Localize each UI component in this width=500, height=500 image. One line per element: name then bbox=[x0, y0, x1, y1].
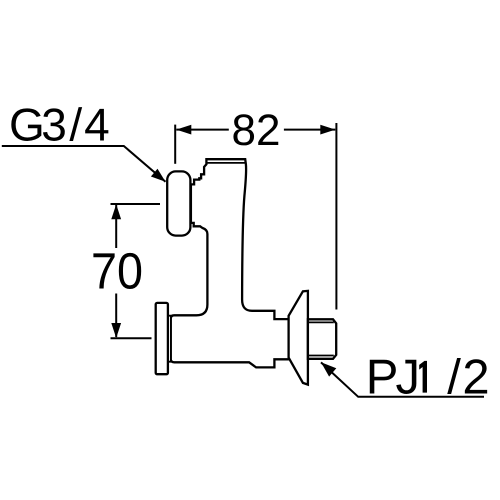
dim 70: bottom tick bbox=[111, 337, 152, 339]
label G3/4 leader line bbox=[2, 146, 166, 182]
dim 70: top tick bbox=[111, 203, 161, 205]
dim 70: line lower segment bbox=[115, 294, 117, 338]
dim 82: left arrowhead bbox=[176, 125, 191, 135]
dim 82: left extension line bbox=[174, 125, 176, 164]
label PJ1/2 digit one bbox=[419, 361, 427, 393]
dim 82: line right segment bbox=[284, 129, 335, 131]
svg-text:G3/4: G3/4 bbox=[9, 99, 110, 151]
svg-text:70: 70 bbox=[91, 243, 143, 300]
label PJ1/2 arrowhead bbox=[321, 362, 336, 376]
dim 82: right arrowhead bbox=[320, 125, 335, 135]
hub behind wall flange bbox=[168, 316, 171, 362]
label PJ1/2 leader line bbox=[321, 362, 484, 396]
label G3/4 arrowhead bbox=[151, 169, 166, 182]
dim 70: down arrowhead bbox=[111, 323, 121, 338]
escutcheon cone bbox=[289, 291, 308, 385]
svg-text:82: 82 bbox=[232, 106, 281, 155]
dim 70: up arrowhead bbox=[111, 204, 121, 219]
dim 82: right extension line bbox=[335, 123, 337, 310]
PJ1/2 threaded nipple bbox=[308, 319, 336, 359]
dim 70: line upper segment bbox=[115, 205, 117, 248]
thread line top bbox=[308, 321, 334, 323]
cap inner line bbox=[207, 162, 245, 164]
dim 82: line left segment bbox=[176, 129, 229, 131]
valve body outline bbox=[171, 159, 290, 367]
G3/4 cylinder bbox=[167, 171, 190, 235]
thread line bottom bbox=[308, 355, 334, 357]
wall flange plate bbox=[156, 303, 168, 374]
